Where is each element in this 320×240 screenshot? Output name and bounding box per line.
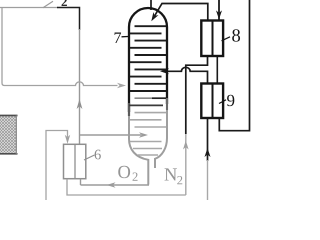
- svg-text:O: O: [117, 163, 130, 183]
- label 9 with leader: [219, 100, 226, 104]
- trays (black, alternating): [130, 26, 166, 91]
- arrowhead right into column y=135: [139, 132, 148, 137]
- label 7 with leader: [122, 36, 129, 38]
- arrowhead up on vertical x=79.5: [77, 99, 83, 109]
- wire: branch into column at y=135: [80, 134, 142, 136]
- wire: right loop from top edge to box 9 bottom: [219, 0, 249, 131]
- column 7: top pipe stub: [150, 0, 152, 10]
- wire: line 2 black corner: [57, 8, 80, 31]
- svg-text:N: N: [164, 166, 177, 186]
- wire: box9 top to column with hop: [168, 67, 208, 83]
- wire: N2 riser black part to box 8: [186, 57, 208, 134]
- svg-text:8: 8: [231, 27, 240, 47]
- column 7: dome and upper walls (black): [129, 8, 167, 112]
- wire: suction gray lower part: [207, 160, 209, 200]
- wire: vessel 6 bottom-left stub to bottom line: [67, 179, 186, 195]
- box 9 (heat exchanger): [201, 84, 223, 119]
- svg-text:6: 6: [94, 147, 101, 163]
- column wall transition segments: [128, 103, 130, 116]
- wire: bottom-left feed up to vessel 6: [46, 131, 68, 201]
- trays transition: [129, 98, 166, 105]
- arrowhead left on O2 line: [107, 182, 116, 187]
- wire: suction up into box 9 (black): [207, 119, 209, 162]
- wire: O2 product line from column bottom to vessel 6: [81, 184, 149, 187]
- svg-text:2: 2: [177, 173, 183, 187]
- label 8 with leader: [222, 37, 231, 41]
- vessel 6 bottom-right stub: [80, 179, 82, 185]
- arrowhead down into box 8: [216, 10, 222, 19]
- arrowhead of top feed into dome: [151, 12, 158, 21]
- wire: vertical from corner down to vessel 6 (gray): [79, 29, 81, 145]
- box 8 (heat exchanger): [201, 21, 223, 57]
- arrowhead right into column y=85.5: [117, 83, 126, 88]
- wire: box 8 to box 9 connector: [216, 57, 218, 83]
- wire: N2 riser gray part: [185, 132, 187, 195]
- arrowhead up gray on N2 riser: [183, 141, 189, 150]
- tick mark on line 2: [43, 1, 53, 8]
- svg-text:9: 9: [226, 91, 235, 110]
- vessel 6: [64, 144, 86, 178]
- wire: line 2 horizontal top-left (gray part): [0, 7, 58, 9]
- wire: air inlet down into box 8: [218, 0, 220, 20]
- arrowhead up black into box 9 line: [205, 148, 211, 157]
- label 6 with leader: [84, 155, 95, 160]
- trays (gray, faded): [130, 113, 166, 155]
- wire: top feed line to column and box 8: [153, 4, 208, 20]
- arrowhead down into vessel 6: [65, 135, 70, 144]
- wire: left loop from line 2 down and right into column: [2, 8, 118, 86]
- svg-text:2: 2: [132, 170, 138, 184]
- svg-text:7: 7: [113, 30, 121, 47]
- column 7: lower walls and bowl (gray): [129, 102, 167, 185]
- arrowhead left into column y=71.3: [160, 68, 169, 74]
